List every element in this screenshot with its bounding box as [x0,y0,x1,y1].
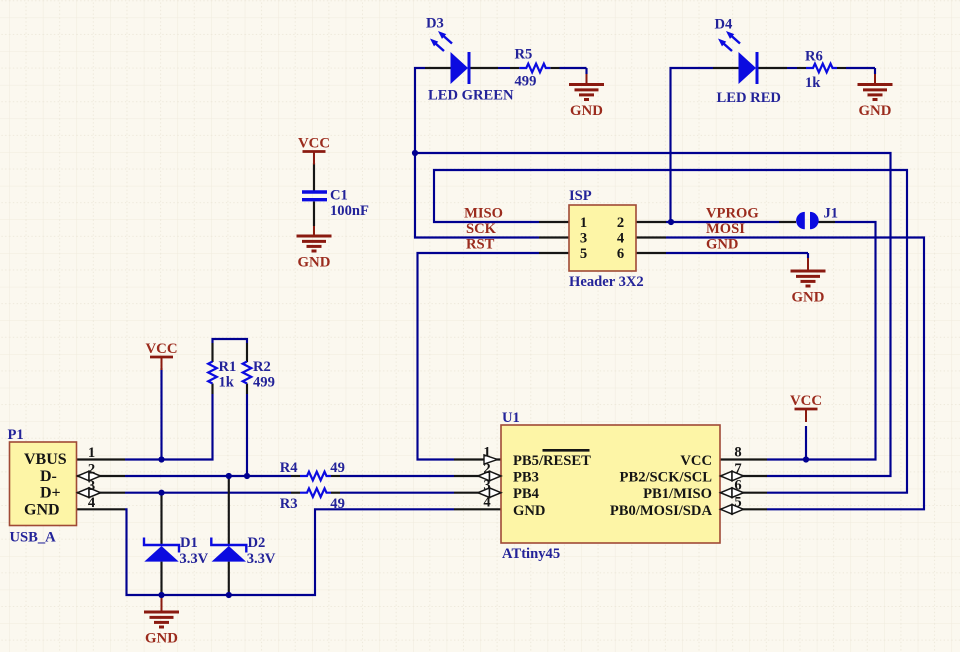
svg-text:R2: R2 [253,359,271,375]
svg-text:RST: RST [466,237,495,253]
svg-text:SCK: SCK [466,221,497,237]
svg-text:3.3V: 3.3V [247,551,276,567]
svg-text:GND: GND [859,103,892,119]
svg-text:VCC: VCC [298,136,330,152]
svg-text:100nF: 100nF [330,203,369,219]
svg-text:VBUS: VBUS [24,451,67,468]
svg-text:PB2/SCK/SCL: PB2/SCK/SCL [620,470,713,486]
svg-text:6: 6 [734,478,741,494]
svg-text:5: 5 [580,246,587,262]
svg-text:J1: J1 [824,206,839,222]
svg-text:LED GREEN: LED GREEN [428,88,514,104]
svg-text:1: 1 [483,445,490,461]
svg-text:MOSI: MOSI [706,221,745,237]
svg-text:D+: D+ [40,485,61,502]
svg-text:PB4: PB4 [513,486,540,502]
svg-text:1: 1 [88,445,95,461]
svg-text:VCC: VCC [145,341,177,357]
svg-text:PB0/MOSI/SDA: PB0/MOSI/SDA [610,503,713,519]
svg-text:U1: U1 [502,410,520,426]
svg-text:2: 2 [483,461,490,477]
svg-text:4: 4 [617,231,625,247]
svg-text:PB3: PB3 [513,470,539,486]
svg-text:USB_A: USB_A [10,530,57,546]
svg-text:D-: D- [40,468,57,485]
svg-text:4: 4 [88,495,96,511]
svg-text:D3: D3 [426,16,444,32]
svg-text:GND: GND [513,503,545,519]
svg-text:R5: R5 [515,47,533,63]
svg-text:499: 499 [253,375,275,391]
svg-text:499: 499 [515,74,537,90]
svg-text:5: 5 [734,494,741,510]
svg-text:ATtiny45: ATtiny45 [502,546,560,562]
svg-text:R4: R4 [280,460,299,476]
svg-text:PB5/RESET: PB5/RESET [513,453,591,469]
svg-text:D2: D2 [248,535,266,551]
svg-text:8: 8 [734,445,741,461]
svg-text:R6: R6 [805,49,823,65]
svg-text:GND: GND [570,103,603,119]
svg-text:VCC: VCC [680,453,712,469]
svg-text:1k: 1k [219,375,235,391]
svg-text:3: 3 [483,478,490,494]
svg-text:4: 4 [483,494,491,510]
svg-text:GND: GND [792,290,825,306]
svg-text:MISO: MISO [464,206,503,222]
svg-text:3.3V: 3.3V [179,551,208,567]
svg-text:R1: R1 [219,359,237,375]
svg-text:Header 3X2: Header 3X2 [569,274,644,290]
svg-text:C1: C1 [330,188,348,204]
svg-text:2: 2 [617,215,624,231]
svg-text:7: 7 [734,461,741,477]
svg-text:P1: P1 [8,427,24,443]
svg-text:GND: GND [298,255,331,271]
svg-text:2: 2 [88,462,95,478]
svg-text:GND: GND [706,237,738,253]
svg-text:PB1/MISO: PB1/MISO [643,486,712,502]
svg-text:R3: R3 [280,496,298,512]
svg-text:6: 6 [617,246,624,262]
svg-text:3: 3 [88,478,95,494]
svg-text:D1: D1 [180,535,198,551]
svg-text:1: 1 [580,215,587,231]
svg-text:VPROG: VPROG [706,206,759,222]
svg-text:49: 49 [330,460,345,476]
svg-text:LED RED: LED RED [717,90,781,106]
svg-text:VCC: VCC [790,393,822,409]
svg-text:GND: GND [145,631,178,647]
svg-text:ISP: ISP [569,188,592,204]
svg-text:1k: 1k [805,75,821,91]
svg-text:D4: D4 [715,17,734,33]
svg-text:GND: GND [24,501,60,518]
svg-text:3: 3 [580,231,587,247]
svg-text:49: 49 [330,496,345,512]
